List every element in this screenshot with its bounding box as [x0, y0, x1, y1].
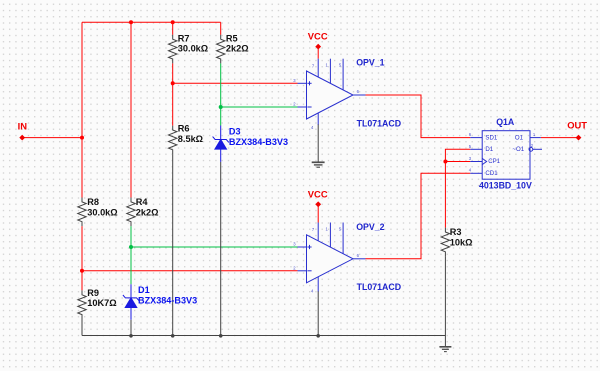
- power VCC terminal OPV_2: [315, 201, 321, 207]
- wire D1 pin to R3 column: [445, 149, 470, 227]
- wire OPV_2 output to CD1: [366, 173, 471, 258]
- diode D1 zener BZX384-B3V3: [123, 284, 139, 320]
- wire top bias rail: [82, 21, 221, 23]
- svg-text:10K7Ω: 10K7Ω: [87, 298, 116, 308]
- wire R9 bottom to rail: [81, 319, 83, 336]
- junction D1 diode at ground rail: [129, 334, 133, 338]
- svg-text:2k2Ω: 2k2Ω: [226, 44, 249, 54]
- wire D3 bottom to rail: [220, 162, 222, 336]
- junction R6 at ground rail: [171, 334, 175, 338]
- svg-text:R4: R4: [136, 197, 149, 207]
- wire R5 bottom to D3 (green net): [220, 63, 222, 125]
- wire R3 bottom to rail and ground: [444, 256, 446, 346]
- svg-text:OPV_2: OPV_2: [356, 222, 384, 232]
- svg-text:IN: IN: [18, 121, 28, 132]
- resistor R4: [127, 198, 135, 227]
- svg-text:2k2Ω: 2k2Ω: [136, 207, 159, 217]
- resistor R9: [78, 290, 86, 319]
- svg-text:R9: R9: [87, 288, 99, 298]
- wire ground rail: [82, 335, 445, 337]
- wire IN to left column: [22, 137, 82, 139]
- wire D1 bottom to rail: [130, 320, 132, 336]
- junction R7/R6/OPV_1+ node: [171, 81, 175, 85]
- svg-text:R6: R6: [178, 123, 190, 133]
- junction R4/D1/OPV_2+ node: [129, 245, 133, 249]
- svg-text:SD1: SD1: [485, 134, 497, 141]
- wire node to OPV_1 inverting input (green net): [221, 106, 298, 108]
- svg-text:R3: R3: [450, 227, 462, 237]
- svg-text:O1: O1: [515, 134, 524, 141]
- svg-text:OUT: OUT: [567, 119, 587, 130]
- wire R4 column upper (top rail to R4): [130, 22, 132, 197]
- svg-text:10kΩ: 10kΩ: [450, 237, 473, 247]
- svg-text:R7: R7: [178, 33, 190, 43]
- svg-text:R5: R5: [226, 33, 238, 43]
- junction top rail R7 column: [171, 20, 175, 24]
- wire OPV_2 ground pin to rail: [317, 291, 319, 336]
- input terminal IN: [19, 135, 25, 141]
- wire node to OPV_1 noninverting input: [173, 82, 298, 84]
- svg-text:30.0kΩ: 30.0kΩ: [178, 44, 208, 54]
- wire left column upper (top rail to R8): [81, 22, 83, 197]
- junction R8/R9/OPV_2- node: [80, 269, 84, 273]
- svg-text:8.5kΩ: 8.5kΩ: [178, 134, 203, 144]
- wire node to OPV_2 inverting input: [82, 270, 298, 272]
- op-amp OPV_1 TL071ACD: [298, 59, 366, 125]
- wire R7 top stub: [172, 22, 174, 35]
- junction top rail R4 column: [129, 20, 133, 24]
- diode D3 zener BZX384-B3V3: [213, 126, 229, 162]
- svg-text:D1: D1: [485, 146, 493, 153]
- svg-text:D3: D3: [229, 127, 241, 137]
- flip-flop Q1A 4013BD_10V: [470, 131, 542, 180]
- svg-text:TL071ACD: TL071ACD: [357, 282, 401, 292]
- svg-text:BZX384-B3V3: BZX384-B3V3: [229, 137, 288, 147]
- junction D1/CP1/R3 node: [443, 160, 447, 164]
- svg-text:D1: D1: [138, 285, 150, 295]
- resistor R7: [169, 35, 177, 64]
- svg-text:4013BD_10V: 4013BD_10V: [479, 181, 532, 191]
- wire CP1 branch: [445, 161, 470, 163]
- wire OPV_1 output to SD1: [366, 95, 471, 138]
- wire VCC to OPV_1 supply pin: [317, 47, 319, 59]
- svg-text:BZX384-B3V3: BZX384-B3V3: [138, 295, 197, 305]
- svg-text:VCC: VCC: [308, 31, 328, 42]
- resistor R8: [78, 198, 86, 227]
- wire O1 to OUT: [541, 137, 579, 139]
- svg-text:R8: R8: [87, 197, 99, 207]
- ground under OPV_1: [312, 162, 325, 167]
- svg-text:CD1: CD1: [485, 170, 498, 177]
- svg-text:Q1A: Q1A: [496, 117, 515, 127]
- svg-text:30.0kΩ: 30.0kΩ: [87, 207, 117, 217]
- svg-text:VCC: VCC: [308, 189, 328, 200]
- resistor R6: [169, 126, 177, 155]
- wire R7 bottom to R6 top: [172, 63, 174, 125]
- junction D3 at ground rail: [219, 334, 223, 338]
- svg-text:OPV_1: OPV_1: [356, 58, 384, 68]
- wire R5 top stub: [220, 22, 222, 35]
- wire R6 bottom to rail: [172, 154, 174, 336]
- wire R8 bottom to R9 top: [81, 226, 83, 290]
- junction IN node: [80, 136, 84, 140]
- junction OPV_2 pin at ground rail: [316, 334, 320, 338]
- wire node to OPV_2 noninverting input (green net): [131, 246, 298, 248]
- ground under R3: [439, 347, 451, 352]
- power VCC terminal OPV_1: [315, 44, 321, 50]
- junction R5/D3/OPV_1- node: [219, 105, 223, 109]
- svg-text:~O1: ~O1: [512, 146, 524, 153]
- resistor R3: [441, 228, 449, 257]
- wire VCC to OPV_2 supply pin: [317, 204, 319, 222]
- svg-text:TL071ACD: TL071ACD: [357, 118, 401, 128]
- wire R4 bottom to D1 (green net): [130, 226, 132, 284]
- resistor R5: [217, 35, 225, 64]
- wire OPV_1 ground pin lower: [317, 124, 319, 162]
- svg-text:CP1: CP1: [488, 158, 500, 165]
- output terminal OUT: [576, 135, 582, 141]
- op-amp OPV_2 TL071ACD: [298, 223, 366, 292]
